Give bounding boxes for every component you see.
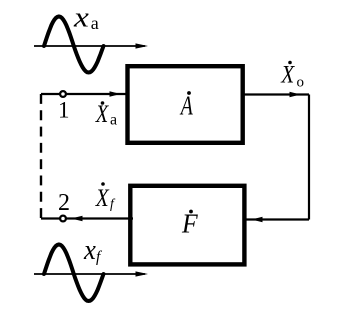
axis of feedback sine x_f <box>34 271 148 276</box>
label A (dotted) <box>179 91 193 121</box>
label x_f <box>83 234 103 266</box>
wire: right vertical feedback line <box>308 95 310 220</box>
svg-text:a: a <box>91 13 99 33</box>
sine wave x_f <box>44 245 104 302</box>
wire: bottom feedback line into F <box>243 218 309 220</box>
node 1 circle <box>60 91 66 97</box>
label x_a <box>73 1 99 33</box>
svg-text:X: X <box>280 61 295 89</box>
feedback block F <box>130 186 244 265</box>
svg-text:o: o <box>297 75 305 91</box>
label X_f (dotted) <box>95 182 116 212</box>
wire: output line <box>243 93 309 95</box>
op-amp block A <box>128 66 243 143</box>
wire: node 2 line <box>41 217 133 219</box>
svg-text:1: 1 <box>58 98 70 123</box>
svg-text:x: x <box>73 1 89 33</box>
axis of input sine x_a <box>34 43 148 48</box>
svg-text:X: X <box>95 184 110 212</box>
svg-text:2: 2 <box>58 190 70 216</box>
label X_a (dotted) <box>95 100 117 128</box>
arrow into block F <box>252 217 263 223</box>
label X_o (dotted) <box>280 61 304 91</box>
label F (dotted) <box>181 209 199 239</box>
arrow on output line <box>290 92 301 98</box>
arrow into block A <box>110 91 121 97</box>
svg-text:A: A <box>179 92 193 122</box>
svg-text:x: x <box>83 234 96 266</box>
node 2 circle <box>60 216 66 222</box>
wire: input line to node 1 <box>41 93 130 95</box>
sine wave x_a <box>44 17 104 73</box>
svg-text:F: F <box>181 209 199 239</box>
arrow toward node 2 <box>71 216 83 222</box>
svg-text:a: a <box>110 111 117 128</box>
wire: dashed line between node 1 and node 2 <box>40 94 42 219</box>
